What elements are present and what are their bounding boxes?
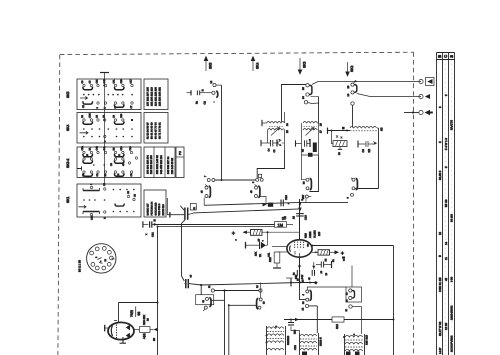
resistor R18 with arrow <box>232 230 300 242</box>
B+ feed wire bottom <box>284 318 332 321</box>
svg-text:190 194 198 204: 190 194 198 204 <box>147 155 150 174</box>
svg-text:C5A: C5A <box>81 146 84 151</box>
wire contact a to terminal 1 <box>312 82 421 85</box>
svg-text:540 903 187 64: 540 903 187 64 <box>167 156 170 174</box>
svg-text:51 52 54 56 57: 51 52 54 56 57 <box>147 122 150 139</box>
svg-text:C17: C17 <box>130 79 133 84</box>
svg-text:C8: C8 <box>362 149 365 153</box>
switch block SK1 <box>77 182 141 220</box>
svg-text:C13: C13 <box>294 345 297 350</box>
contact pair e <box>196 295 214 311</box>
resistor 1M grid <box>275 216 294 228</box>
dashed chassis border <box>58 52 414 355</box>
svg-text:68 71 74 78 81: 68 71 74 78 81 <box>158 122 161 139</box>
PU aux box <box>176 147 184 178</box>
svg-text:C48: C48 <box>103 79 106 84</box>
contact pair d <box>250 185 266 205</box>
wire to output tube V1 <box>119 303 158 324</box>
svg-text:9: 9 <box>438 255 442 257</box>
arrow SK4 <box>251 57 259 72</box>
svg-text:MOSOPVEN2: MOSOPVEN2 <box>451 335 454 352</box>
svg-text:SK3-2: SK3-2 <box>66 158 70 168</box>
svg-text:5A: 5A <box>332 259 335 262</box>
svg-text:B0 2 1 56: B0 2 1 56 <box>78 260 82 272</box>
socket 12 <box>302 304 318 333</box>
node AVC junction <box>157 226 159 228</box>
contact pair under cluster B <box>301 155 319 202</box>
svg-text:SK3: SK3 <box>303 61 307 68</box>
output transformer S10/S13 <box>266 326 291 355</box>
capacitor C16 on bus <box>281 195 290 207</box>
svg-text:C8N: C8N <box>89 113 92 118</box>
svg-text:C30: C30 <box>120 113 123 118</box>
switch contact SK2 <box>187 80 218 104</box>
oscillator transistor stage at S8 <box>328 127 351 155</box>
svg-text:36.88 3: 36.88 3 <box>438 170 442 180</box>
svg-text:5 4 W 1 8: 5 4 W 1 8 <box>444 138 448 150</box>
svg-text:118: 118 <box>318 231 321 236</box>
svg-text:226/04/6582: 226/04/6582 <box>451 305 454 320</box>
svg-text:R28: R28 <box>305 233 308 238</box>
V2 screen resistor <box>272 246 287 248</box>
mains transformer S15/S16 <box>343 334 369 355</box>
diode detector network <box>246 231 271 257</box>
tube socket view B0-2-1-56 <box>87 244 116 273</box>
tone bus vertical pair <box>211 291 257 355</box>
svg-text:C10: C10 <box>129 146 132 151</box>
output tube V1 <box>108 322 134 343</box>
V2 anode wire up <box>299 194 305 240</box>
svg-text:C11: C11 <box>268 252 271 257</box>
arrow SK2 <box>346 62 354 76</box>
audio line wire <box>189 282 318 287</box>
svg-text:SK1: SK1 <box>66 196 70 203</box>
resistor R14 on bus <box>263 203 274 207</box>
capacitor C48 with ground <box>143 219 158 237</box>
svg-text:C16: C16 <box>285 195 288 200</box>
svg-text:R20 62K: R20 62K <box>143 315 146 325</box>
svg-text:C9X: C9X <box>120 79 123 84</box>
wire from SK2 to bus <box>216 85 221 180</box>
wire S8 right side down and left <box>355 128 378 189</box>
svg-text:18: 18 <box>281 216 285 220</box>
wire from C17 down to C53 <box>182 220 185 276</box>
svg-text:9 56: 9 56 <box>451 276 454 282</box>
svg-text:942 455 318 184: 942 455 318 184 <box>160 155 163 174</box>
svg-text:SK5: SK5 <box>66 91 70 98</box>
contact group a (top right of SK3) <box>302 84 319 104</box>
wire grid bus upper <box>204 202 348 205</box>
capacitor C31 with ground <box>358 141 377 153</box>
range table for SK3-2 <box>144 147 175 178</box>
socket 11 <box>345 305 362 334</box>
terminal 3 <box>404 110 433 116</box>
cathode resistor R23 <box>269 252 287 268</box>
contact pair c <box>201 185 211 206</box>
resistor S18 <box>332 317 395 329</box>
V2 labels <box>295 230 321 279</box>
svg-text:SK2: SK2 <box>350 65 354 72</box>
svg-text:E13: E13 <box>294 329 297 334</box>
contact pair h <box>346 266 362 303</box>
svg-text:GOLVN 218: GOLVN 218 <box>154 202 157 216</box>
svg-text:PICTURA 34: PICTURA 34 <box>150 201 153 215</box>
vertical feed wire left <box>157 227 159 355</box>
decoupling caps row under V2 <box>286 262 318 284</box>
svg-text:OSH 91 8/5: OSH 91 8/5 <box>438 277 442 292</box>
wire to cluster B right rail <box>318 97 320 124</box>
wire contact b to terminal 2 <box>357 94 421 97</box>
arrow SK3 <box>298 58 306 74</box>
anode load R26 with + <box>312 250 345 262</box>
wire cluster A down to node row <box>257 150 284 178</box>
svg-text:C12: C12 <box>152 232 155 237</box>
svg-text:R23: R23 <box>269 257 272 262</box>
svg-text:202 206 212 216: 202 206 212 216 <box>151 87 154 106</box>
svg-text:58 61 64 66 69: 58 61 64 66 69 <box>151 122 154 139</box>
svg-text:SK4: SK4 <box>66 124 70 131</box>
svg-text:53 U0: 53 U0 <box>444 199 448 207</box>
label 18 near grid cap <box>281 216 285 220</box>
svg-text:14.27: 14.27 <box>439 347 442 354</box>
svg-text:S18: S18 <box>335 324 339 329</box>
IF transformer S4/S5 (cluster A) <box>261 112 289 153</box>
coupling capacitor C53 <box>182 274 193 288</box>
svg-text:NS10 5: NS10 5 <box>320 337 323 346</box>
svg-text:C20: C20 <box>120 146 123 151</box>
switch block SK3-2 <box>77 146 141 178</box>
svg-text:42: 42 <box>444 277 448 281</box>
arrow SK5 <box>204 57 212 72</box>
svg-text:585 1612 145 92: 585 1612 145 92 <box>156 155 159 174</box>
cap C13 with ground right <box>316 259 335 276</box>
svg-text:SK4: SK4 <box>256 62 260 69</box>
svg-text:62.27 W 30: 62.27 W 30 <box>438 321 442 336</box>
svg-text:23K: 23K <box>255 251 258 256</box>
svg-text:UL823: UL823 <box>314 230 317 238</box>
wire contact a to oscillator coil A <box>282 85 306 122</box>
V1 grid ground <box>105 325 108 332</box>
svg-text:A18E: A18E <box>309 231 312 238</box>
strip column values <box>438 94 454 354</box>
terminal 1 (boxed) <box>362 78 434 97</box>
ground tick on audio line <box>290 279 292 287</box>
svg-text:2K: 2K <box>259 254 262 257</box>
svg-text:A(M): A(M) <box>143 333 146 339</box>
wire cluster B to contact <box>302 155 306 180</box>
svg-text:S: S <box>449 55 454 58</box>
output transformer S11/S14 <box>294 333 323 355</box>
svg-text:507: 507 <box>302 194 305 199</box>
svg-text:78(H): 78(H) <box>130 310 134 317</box>
node with pickup circle below contact b <box>351 102 354 128</box>
switch block SK4 <box>77 113 141 144</box>
svg-text:PU: PU <box>178 151 182 155</box>
AVC line double <box>155 225 275 227</box>
solder tag mark <box>342 257 345 259</box>
svg-text:W13 P62 8: W13 P62 8 <box>158 203 161 215</box>
svg-text:MARIO MT: MARIO MT <box>147 203 150 215</box>
pair of sockets node row <box>204 174 263 183</box>
svg-text:KOTS 519: KOTS 519 <box>162 204 165 216</box>
measurement table strip <box>437 53 455 355</box>
svg-text:187 192 197 205: 187 192 197 205 <box>147 87 150 106</box>
HT rail from V2 to PSU <box>393 246 395 355</box>
anode feed arrow and series cap <box>293 205 308 220</box>
electrolytic cap on feed <box>288 320 300 335</box>
long output wire from V2 <box>312 245 394 247</box>
junction under C53 <box>200 285 202 295</box>
contact group b <box>347 80 357 96</box>
svg-text:11: 11 <box>444 257 448 260</box>
contact pair f <box>257 298 266 309</box>
IF transformer S6/S7 (cluster B) <box>296 122 323 157</box>
svg-text:C4B: C4B <box>96 146 99 151</box>
function table for SK1 <box>144 190 166 217</box>
wire grid bus lower <box>193 208 301 213</box>
pentode V2 <box>287 240 312 257</box>
volume control sockets <box>208 285 262 292</box>
svg-text:268 140 88 52: 268 140 88 52 <box>171 157 174 174</box>
contact pair under S8 <box>347 178 358 199</box>
strip header letters <box>437 55 454 260</box>
range table for SK5 <box>144 79 168 110</box>
svg-text:96: 96 <box>137 312 141 316</box>
svg-text:C10: C10 <box>305 215 308 220</box>
svg-text:B: B <box>437 55 442 58</box>
label 96 (EL84) <box>114 307 150 322</box>
contact pair g <box>300 283 347 305</box>
capacitor C17 on grid line <box>167 198 196 220</box>
svg-text:C4L: C4L <box>103 146 106 151</box>
svg-text:m: m <box>343 259 346 261</box>
svg-text:C2: C2 <box>204 101 207 105</box>
svg-text:C8L: C8L <box>113 79 116 84</box>
coil S8 <box>350 126 384 131</box>
svg-text:SK5: SK5 <box>209 62 213 69</box>
svg-text:C: C <box>443 55 448 58</box>
V2 cathode down wire <box>299 257 301 282</box>
svg-text:12 23: 12 23 <box>444 323 448 330</box>
svg-text:9/2: 9/2 <box>368 148 371 152</box>
cathode resistor R20 <box>134 315 158 341</box>
svg-text:S8: S8 <box>380 127 384 131</box>
svg-text:1M: 1M <box>278 223 284 228</box>
svg-text:94J: 94J <box>301 274 304 279</box>
svg-text:14: 14 <box>444 241 448 245</box>
svg-text:60 63 67 70 74: 60 63 67 70 74 <box>155 122 158 139</box>
svg-text:15: 15 <box>438 231 442 235</box>
switch block SK5 <box>77 79 141 110</box>
svg-text:S15 S16: S15 S16 <box>366 334 369 345</box>
svg-text:5AAT75: 5AAT75 <box>450 120 454 130</box>
svg-text:214 221 228 236: 214 221 228 236 <box>155 87 158 106</box>
range table for SK4 <box>144 113 168 144</box>
svg-text:C12: C12 <box>91 215 94 220</box>
wire bus through switch bank <box>100 73 109 185</box>
terminal 2 <box>419 94 430 99</box>
svg-text:225 230 245 252: 225 230 245 252 <box>158 87 161 106</box>
svg-text:S10S13: S10S13 <box>287 335 290 345</box>
wire contact f up to audio line <box>260 283 262 299</box>
svg-text:210 216 224 230: 210 216 224 230 <box>150 155 153 174</box>
svg-text:96 130: 96 130 <box>451 214 454 222</box>
